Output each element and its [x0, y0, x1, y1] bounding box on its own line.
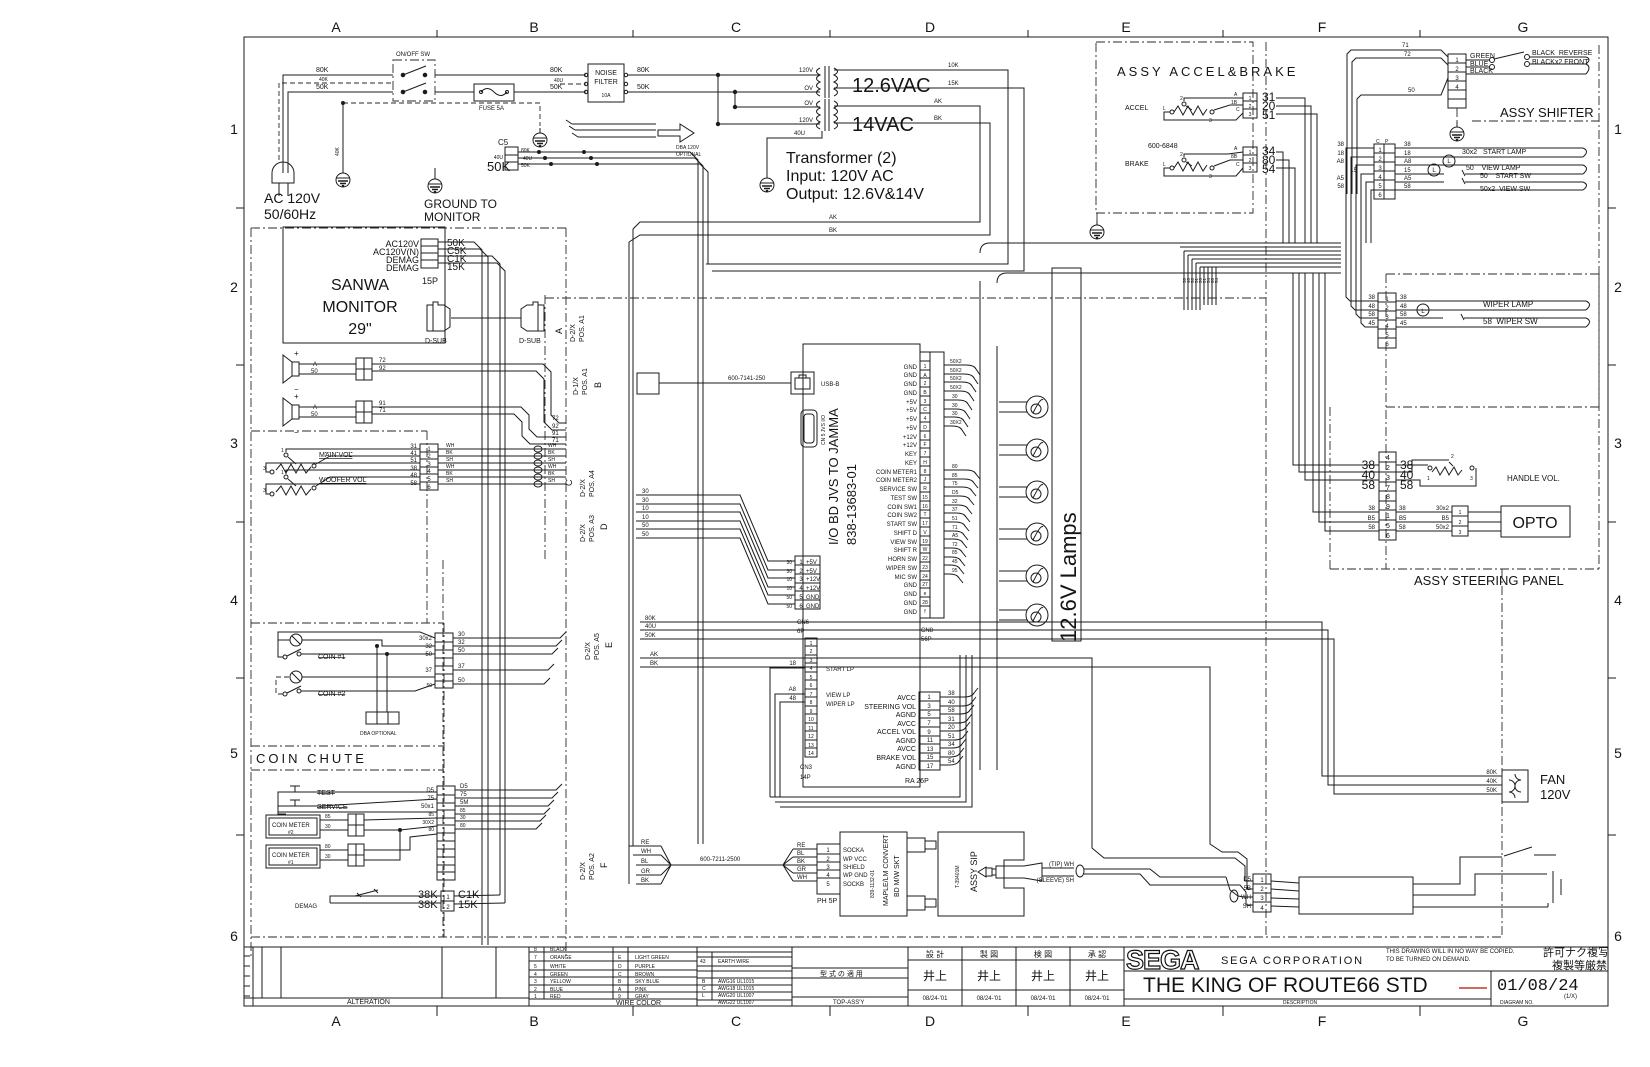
wire C5 50K: [518, 164, 708, 264]
svg-text:30X2: 30X2: [950, 420, 962, 426]
DBA connector: [366, 712, 399, 724]
svg-text:MONITOR: MONITOR: [424, 210, 481, 224]
svg-text:WH: WH: [548, 464, 557, 470]
svg-text:GND: GND: [904, 592, 918, 598]
rear capacitor: [1413, 871, 1561, 907]
svg-text:D-1/X: D-1/X: [573, 377, 580, 395]
svg-text:11: 11: [808, 726, 813, 732]
lamp L3: [1026, 481, 1048, 503]
svg-text:COIN SW2: COIN SW2: [887, 513, 917, 519]
svg-text:50: 50: [1408, 88, 1415, 94]
svg-text:38: 38: [1404, 142, 1411, 148]
svg-text:CN8: CN8: [921, 628, 934, 634]
svg-text:MAPLE/LM CONVERT: MAPLE/LM CONVERT: [883, 834, 890, 906]
E region wires 80K 40U 50K to fan: [640, 622, 1502, 776]
svg-text:AC 120V: AC 120V: [264, 190, 321, 206]
svg-text:FUSE 5A: FUSE 5A: [479, 106, 504, 112]
svg-text:30: 30: [460, 815, 466, 821]
svg-text:4: 4: [1614, 592, 1622, 608]
svg-text:GND: GND: [904, 610, 918, 616]
svg-text:L: L: [1163, 106, 1166, 112]
svg-text:18: 18: [1404, 151, 1411, 157]
svg-text:D-SUB: D-SUB: [425, 338, 447, 345]
svg-text:37: 37: [952, 507, 958, 513]
svg-text:40: 40: [948, 700, 955, 706]
svg-text:+: +: [294, 392, 299, 401]
svg-text:839-1132-01: 839-1132-01: [870, 870, 876, 898]
svg-text:ON/OFF SW: ON/OFF SW: [396, 52, 430, 58]
svg-text:10: 10: [642, 515, 649, 521]
svg-text:600-7141-250: 600-7141-250: [728, 376, 766, 382]
svg-text:1: 1: [1459, 510, 1462, 516]
svg-text:58: 58: [1368, 312, 1375, 318]
svg-text:ASSY SIP: ASSY SIP: [969, 851, 979, 892]
svg-text:12: 12: [808, 734, 814, 740]
svg-text:OPTIONAL: OPTIONAL: [676, 152, 702, 158]
svg-text:40U: 40U: [494, 155, 504, 161]
connector sp2: [356, 401, 372, 423]
wire 40K drop: [342, 103, 344, 171]
svg-text:48: 48: [410, 473, 417, 479]
COIN METER #1: [266, 845, 320, 868]
svg-text:18: 18: [1337, 151, 1344, 157]
ground to monitor symbol G4: [428, 174, 442, 193]
svg-text:80K: 80K: [521, 148, 531, 154]
svg-text:50K: 50K: [550, 84, 563, 91]
svg-text:15: 15: [1404, 168, 1411, 174]
ground G1: [336, 168, 350, 187]
svg-text:A: A: [313, 405, 317, 411]
wire sw to fuse: [435, 91, 474, 93]
svg-text:GND: GND: [904, 382, 918, 388]
svg-text:2: 2: [1614, 279, 1622, 295]
duct inner wires: [1180, 247, 1341, 267]
svg-text:48: 48: [789, 696, 796, 702]
grid column ticks top: [437, 30, 1420, 37]
D-SUB connector left: [427, 302, 450, 331]
svg-text:8: 8: [810, 700, 813, 706]
svg-text:40K: 40K: [319, 77, 329, 83]
svg-text:85: 85: [952, 473, 958, 479]
svg-text:RA 26P: RA 26P: [905, 778, 929, 785]
svg-text:WIPER LP: WIPER LP: [826, 702, 855, 708]
svg-text:10K: 10K: [948, 63, 959, 69]
shifter switch wires: [1466, 52, 1589, 74]
wires sp1 to bus: [372, 364, 566, 423]
shifter dash boundary: [1472, 120, 1599, 122]
svg-text:HORN SW: HORN SW: [888, 557, 917, 563]
svg-text:COIN METER1: COIN METER1: [876, 470, 918, 476]
svg-text:3: 3: [1386, 475, 1390, 482]
svg-text:STEERING VOL: STEERING VOL: [864, 704, 916, 711]
svg-text:AK: AK: [650, 652, 658, 658]
svg-text:50/60Hz: 50/60Hz: [264, 206, 316, 222]
grid column letters top: [331, 19, 1528, 35]
phone plug: [978, 863, 1074, 881]
svg-text:4: 4: [810, 666, 813, 672]
svg-text:SOCKB: SOCKB: [843, 882, 864, 888]
svg-text:WOOFER VOL: WOOFER VOL: [319, 477, 367, 484]
svg-text:32: 32: [952, 499, 958, 505]
steering trunk wires: [1293, 273, 1379, 480]
svg-text:D: D: [923, 425, 927, 431]
WOOFER VOL pot: [270, 475, 316, 496]
svg-text:45: 45: [1400, 321, 1407, 327]
svg-text:75: 75: [460, 792, 467, 798]
svg-text:40U: 40U: [645, 624, 656, 630]
wiper feed wires: [1346, 243, 1378, 327]
dash-dot trunk boundary: [442, 560, 444, 937]
svg-text:BRAKE VOL: BRAKE VOL: [876, 755, 916, 762]
svg-text:600-6848: 600-6848: [1148, 143, 1178, 150]
switch S1a: [401, 66, 427, 77]
svg-text:600-7211-2500: 600-7211-2500: [700, 857, 741, 863]
TEST switch: [286, 786, 304, 792]
svg-text:POS. A2: POS. A2: [589, 853, 596, 880]
CN8 pin numbers: [922, 364, 928, 615]
svg-text:F: F: [923, 442, 926, 448]
shifter lamp loops: [1395, 148, 1587, 190]
svg-text:THE KING OF ROUTE66 STD: THE KING OF ROUTE66 STD: [1143, 974, 1428, 997]
svg-text:7: 7: [924, 451, 927, 457]
svg-text:58: 58: [948, 708, 955, 714]
node dot A: [716, 73, 720, 77]
svg-text:COIN METER: COIN METER: [272, 853, 310, 859]
svg-text:ACCEL VOL: ACCEL VOL: [877, 729, 916, 736]
svg-text:USB-B: USB-B: [821, 382, 839, 388]
svg-text:井上: 井上: [977, 969, 1001, 983]
svg-text:−: −: [294, 428, 299, 437]
svg-text:PINK: PINK: [635, 987, 647, 993]
svg-text:GR: GR: [797, 867, 807, 873]
svg-text:40U: 40U: [523, 156, 533, 162]
svg-text:COIN SW1: COIN SW1: [887, 505, 917, 511]
svg-text:38: 38: [1368, 295, 1375, 301]
dash-dot monitor A1 box edge: [544, 295, 546, 560]
svg-text:3: 3: [230, 435, 238, 451]
svg-text:80: 80: [952, 464, 958, 470]
dash-dot jamma region top: [545, 297, 1266, 299]
meter2 connector: [348, 814, 364, 836]
svg-text:GND: GND: [904, 365, 918, 371]
svg-text:2: 2: [230, 279, 238, 295]
svg-text:27: 27: [922, 582, 928, 588]
svg-text:5: 5: [1386, 523, 1390, 530]
svg-text:34: 34: [948, 742, 955, 748]
svg-text:AK: AK: [934, 99, 942, 105]
svg-text:18: 18: [789, 661, 796, 667]
svg-text:30: 30: [458, 632, 465, 638]
svg-text:58: 58: [1368, 525, 1375, 531]
svg-text:BROWN: BROWN: [635, 972, 655, 978]
svg-text:80: 80: [460, 823, 466, 829]
noise suppressor block: [1271, 877, 1413, 914]
svg-text:SH: SH: [548, 478, 555, 484]
shifter lower feed wires: [1346, 148, 1374, 243]
DBA 120V arrow: [658, 124, 694, 142]
svg-text:1: 1: [1249, 96, 1252, 102]
svg-text:2: 2: [1180, 96, 1183, 102]
connector vol 6p: [420, 444, 438, 490]
svg-text:+5V: +5V: [806, 560, 817, 566]
MAIN VOL pot: [270, 453, 316, 474]
opto link wires: [1468, 512, 1501, 531]
svg-text:A: A: [554, 328, 564, 334]
wiper sw loop: [1396, 314, 1590, 327]
test service wires: [304, 791, 437, 793]
svg-text:5: 5: [1614, 745, 1622, 761]
transformer T2: [816, 99, 842, 131]
svg-text:50 START SW: 50 START SW: [1480, 173, 1531, 180]
svg-text:50X2: 50X2: [950, 385, 962, 391]
svg-text:D: D: [925, 1013, 935, 1029]
svg-text:20: 20: [948, 725, 955, 731]
svg-text:D: D: [599, 523, 609, 530]
svg-text:50x2: 50x2: [1436, 525, 1450, 531]
svg-text:AWG18 UL1015: AWG18 UL1015: [718, 986, 754, 992]
svg-text:54: 54: [948, 759, 955, 765]
svg-text:30: 30: [325, 854, 331, 860]
svg-text:75: 75: [952, 481, 958, 487]
svg-text:BK: BK: [446, 471, 453, 477]
svg-text:+12V: +12V: [806, 586, 820, 592]
wire usb cable 600-7141-250: [659, 382, 791, 384]
speaker SP2: [283, 398, 299, 426]
svg-text:C5: C5: [498, 138, 509, 147]
opto connector: [1452, 506, 1468, 536]
svg-text:72: 72: [1404, 52, 1411, 58]
svg-text:75: 75: [427, 796, 434, 802]
svg-text:71: 71: [952, 525, 958, 531]
svg-text:WH: WH: [446, 443, 455, 449]
wire T1 secondary 15K: [712, 88, 1024, 271]
svg-text:2: 2: [1249, 158, 1252, 164]
drawing border frame: [244, 37, 1608, 1006]
svg-text:6P: 6P: [797, 629, 804, 635]
svg-text:37: 37: [458, 664, 465, 670]
svg-text:Output: 12.6V&14V: Output: 12.6V&14V: [786, 186, 924, 203]
RA left labels: [864, 695, 916, 771]
svg-text:38: 38: [1399, 506, 1406, 512]
accel wires: [1184, 98, 1243, 101]
svg-text:COIN CHUTE: COIN CHUTE: [256, 751, 367, 766]
svg-text:38: 38: [410, 466, 417, 472]
tip sleeve wires: [1084, 869, 1226, 877]
svg-text:2: 2: [534, 987, 537, 993]
meter2 to big connector: [364, 818, 437, 820]
svg-text:B: B: [593, 382, 603, 388]
svg-text:38K: 38K: [418, 899, 438, 911]
svg-text:DEMAG: DEMAG: [386, 263, 419, 273]
ground accel box: [1090, 220, 1104, 239]
svg-text:58: 58: [1337, 184, 1344, 190]
wire C5 40U: [518, 158, 703, 844]
svg-text:#2: #2: [288, 830, 294, 836]
svg-text:許可ナク複写: 許可ナク複写: [1543, 945, 1609, 959]
wires woofer vol to connector: [286, 470, 420, 474]
svg-text:ACCEL: ACCEL: [1125, 105, 1148, 112]
svg-text:3: 3: [924, 399, 927, 405]
dashed earth branch to grounds: [343, 103, 540, 126]
svg-text:GREEN: GREEN: [550, 972, 568, 978]
connector rear 4p: [1253, 874, 1271, 912]
svg-text:SH: SH: [446, 478, 453, 484]
grid row ticks right: [1608, 208, 1616, 835]
svg-text:GREEN: GREEN: [1470, 53, 1495, 60]
svg-text:17: 17: [922, 521, 928, 527]
svg-text:POS. A5: POS. A5: [594, 633, 601, 660]
svg-text:11: 11: [927, 738, 934, 744]
vol wires WH BK SH group2: [438, 469, 566, 471]
CN3 connector 14P: [805, 638, 817, 757]
svg-text:30: 30: [642, 489, 649, 495]
svg-text:THIS DRAWING WILL IN NO WAY BE: THIS DRAWING WILL IN NO WAY BE COPIED.: [1386, 949, 1515, 955]
svg-text:7: 7: [534, 955, 537, 961]
svg-text:50x1: 50x1: [421, 804, 435, 810]
svg-text:GND: GND: [904, 391, 918, 397]
svg-text:30: 30: [325, 824, 331, 830]
svg-text:DEMAG: DEMAG: [295, 904, 317, 910]
grid row numbers right: [1614, 121, 1622, 944]
RA wires to duct: [940, 688, 978, 765]
coin switch 1: [283, 649, 301, 659]
svg-text:BL: BL: [797, 851, 805, 857]
svg-text:2: 2: [1386, 465, 1390, 472]
svg-text:C: C: [1236, 107, 1240, 113]
svg-text:3: 3: [1614, 435, 1622, 451]
svg-text:BL: BL: [641, 859, 649, 865]
dash-dot coin mid2: [251, 769, 444, 771]
svg-text:(1/X): (1/X): [1564, 994, 1577, 1000]
svg-text:C: C: [702, 986, 706, 992]
SEGA logo: [1126, 945, 1199, 975]
svg-text:型 式 の 適 用: 型 式 の 適 用: [820, 969, 863, 978]
brake wires: [1184, 152, 1243, 157]
svg-text:L: L: [702, 993, 705, 999]
svg-text:BK: BK: [548, 471, 555, 477]
svg-text:58: 58: [1399, 525, 1406, 531]
svg-text:15: 15: [922, 495, 928, 501]
svg-text:OPTO: OPTO: [1512, 515, 1557, 532]
wire 40K dashed earth from plug: [279, 83, 393, 160]
harness duct horizontal: [980, 243, 1341, 253]
lamp L2: [1026, 439, 1048, 461]
svg-text:BK: BK: [797, 859, 805, 865]
svg-text:VIEW SW: VIEW SW: [890, 540, 917, 546]
svg-text:8: 8: [1386, 494, 1390, 501]
wire filter to transformer primary 1: [627, 74, 816, 76]
svg-text:3: 3: [1470, 476, 1473, 482]
AC plug P1: [272, 162, 294, 196]
svg-text:GND: GND: [904, 583, 918, 589]
svg-text:50K: 50K: [637, 84, 650, 91]
shifter top connector: [1448, 54, 1466, 108]
CN8 connector 56P: [920, 352, 944, 618]
svg-text:EARTH WIRE: EARTH WIRE: [718, 959, 750, 965]
svg-text:e: e: [924, 591, 927, 597]
svg-text:D5: D5: [426, 788, 434, 794]
svg-text:2: 2: [1459, 520, 1462, 526]
svg-text:58: 58: [410, 481, 417, 487]
svg-text:OV: OV: [804, 86, 813, 92]
wire stubs labelled: [1184, 251, 1216, 310]
svg-text:COIN #2: COIN #2: [318, 691, 345, 698]
svg-text:2: 2: [1180, 152, 1183, 158]
svg-text:SEGA CORPORATION: SEGA CORPORATION: [1221, 955, 1364, 967]
svg-text:14VAC: 14VAC: [852, 114, 914, 136]
svg-text:2: 2: [810, 649, 813, 655]
svg-text:YELLOW: YELLOW: [550, 979, 571, 985]
svg-text:DESCRIPTION: DESCRIPTION: [1283, 1000, 1318, 1006]
svg-text:7: 7: [810, 692, 813, 698]
svg-text:3: 3: [810, 658, 813, 664]
testservice wires to bus: [455, 784, 562, 790]
svg-text:C: C: [731, 19, 741, 35]
svg-text:3: 3: [1209, 174, 1212, 180]
svg-text:40K: 40K: [1486, 779, 1497, 785]
coin mech 2: [290, 671, 302, 683]
wires main vol to connector: [286, 449, 420, 452]
svg-text:TOP-ASS'Y: TOP-ASS'Y: [833, 1000, 864, 1006]
CN8 wire labels upper: [950, 359, 962, 426]
transformer 40U tail to ground: [767, 131, 822, 176]
svg-text:8: 8: [924, 469, 927, 475]
svg-text:1: 1: [1386, 513, 1390, 520]
CN3 lamp feed wires: [770, 668, 805, 797]
svg-text:7: 7: [1386, 485, 1390, 492]
wire tap to transformer2 0V: [735, 92, 816, 107]
svg-text:T-39401M: T-39401M: [955, 865, 961, 888]
svg-text:#1: #1: [288, 860, 294, 866]
revision strip: [244, 947, 496, 1006]
svg-text:I/O BD JVS TO JAMMA: I/O BD JVS TO JAMMA: [826, 408, 841, 545]
svg-text:85: 85: [952, 550, 958, 556]
svg-text:GND: GND: [806, 604, 820, 610]
wire T2 secondary BK: [629, 123, 990, 242]
DBA optional wires: [376, 646, 378, 712]
svg-text:MONITOR: MONITOR: [322, 299, 397, 316]
noise filter NF1: [584, 64, 627, 102]
svg-text:15: 15: [927, 755, 934, 761]
meter2 wires: [320, 819, 348, 821]
svg-text:CN3: CN3: [800, 765, 813, 771]
svg-text:15P: 15P: [422, 276, 438, 286]
svg-text:F: F: [1318, 19, 1327, 35]
svg-text:8B: 8B: [1231, 154, 1238, 160]
svg-text:71: 71: [1402, 43, 1409, 49]
svg-text:F: F: [1318, 1013, 1327, 1029]
wire 80K hot: [283, 75, 393, 173]
svg-text:A: A: [331, 1013, 341, 1029]
title block frame: [244, 947, 1608, 1006]
svg-text:+12V: +12V: [806, 577, 820, 583]
svg-text:AGND: AGND: [896, 712, 916, 719]
svg-text:8: 8: [534, 947, 537, 953]
ground G2: [533, 128, 547, 147]
svg-text:AWG16 UL1015: AWG16 UL1015: [718, 979, 754, 985]
svg-text:56P: 56P: [921, 637, 932, 643]
MAPLE/LM convert board: [840, 832, 907, 916]
svg-text:+5V: +5V: [906, 400, 917, 406]
svg-text:92: 92: [552, 424, 559, 430]
dash-dot vol right edge: [426, 431, 428, 623]
svg-text:45: 45: [952, 559, 958, 565]
transformer T1: [816, 66, 842, 98]
svg-text:G: G: [1518, 1013, 1529, 1029]
svg-text:C: C: [1236, 162, 1240, 168]
svg-text:BK: BK: [650, 661, 658, 667]
svg-text:KEY: KEY: [905, 452, 917, 458]
